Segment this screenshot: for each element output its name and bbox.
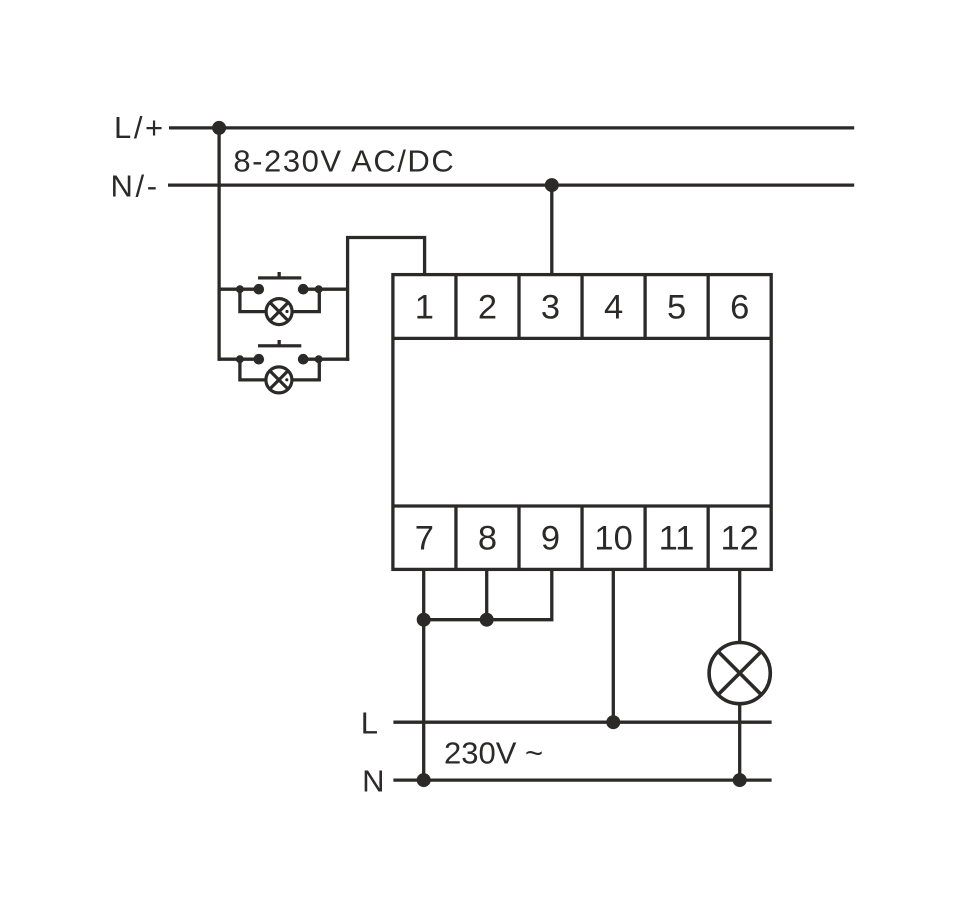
lamp E1 load (709, 643, 770, 704)
svg-text:12: 12 (721, 520, 759, 558)
node junction lamp on N line (733, 773, 747, 787)
lamp HL1 in button S1 (266, 299, 292, 325)
svg-text:10: 10 (594, 520, 632, 558)
button S1 left contact (253, 284, 264, 295)
svg-text:8: 8 (478, 520, 497, 558)
wire N bottom line (393, 778, 771, 781)
node junction on N/- (545, 178, 559, 192)
svg-text:230V ~: 230V ~ (444, 735, 543, 770)
svg-text:N: N (362, 763, 384, 798)
svg-text:5: 5 (667, 289, 686, 327)
wire lamp branch left of S1 (240, 289, 266, 311)
svg-text:2: 2 (478, 289, 497, 327)
svg-text:7: 7 (415, 520, 434, 558)
node S2 lamp branch right (315, 355, 323, 363)
wire terminal 8 down (485, 569, 488, 619)
wire button S1 right lead (303, 288, 347, 291)
svg-text:1: 1 (415, 289, 434, 327)
node S1 lamp branch right (315, 285, 323, 293)
wire terminal 12 down to lamp E1 (738, 569, 741, 644)
lamp HL2 reflection dot (285, 378, 288, 381)
button S2 actuator tick (278, 340, 281, 345)
button S1 right contact (298, 284, 309, 295)
wire button S2 left lead (219, 358, 259, 361)
svg-text:9: 9 (541, 520, 560, 558)
wire lamp branch right of S1 (292, 289, 319, 311)
node junction terminal 8 wire (480, 613, 494, 627)
terminal dividers top row (456, 275, 708, 339)
node junction on L/+ (212, 121, 226, 135)
button S2 left contact (253, 354, 264, 365)
wire lamp E1 to N line (738, 703, 741, 781)
lamp HL2 in button S2 (266, 367, 292, 393)
svg-text:6: 6 (730, 289, 749, 327)
node junction terminal 7 wire (417, 613, 431, 627)
wire button S1 left lead (219, 288, 259, 291)
wire N/- supply line (168, 183, 854, 186)
terminal dividers bottom row (456, 506, 708, 569)
relay U1 body outline (393, 275, 771, 570)
node S2 lamp branch left (236, 355, 244, 363)
wire stub terminal 3 to N/- (550, 185, 553, 276)
button S2 right contact (298, 354, 309, 365)
wire L/+ supply line (169, 126, 854, 129)
button S1 actuator bar (258, 276, 301, 279)
svg-text:L: L (361, 706, 378, 741)
wire from buttons up-over to terminal 1 (348, 238, 425, 361)
wire L bottom line (393, 721, 771, 724)
svg-text:N/-: N/- (111, 169, 160, 204)
wire terminal 10 down to L (612, 569, 615, 722)
wire from L/+ junction down to push buttons (217, 128, 220, 361)
wire button S2 right lead (303, 358, 349, 361)
svg-text:L/+: L/+ (114, 110, 166, 145)
svg-text:3: 3 (541, 289, 560, 327)
wire terminal 9 down and left to terminal 7 wire (424, 569, 552, 619)
wire lamp branch right of S2 (292, 359, 320, 380)
svg-text:4: 4 (604, 289, 623, 327)
node junction terminal 7 on N line (417, 773, 431, 787)
node S1 lamp branch left (236, 285, 244, 293)
button S2 actuator bar (258, 344, 301, 347)
svg-text:8-230V AC/DC: 8-230V AC/DC (233, 143, 455, 178)
node junction on L line (606, 715, 620, 729)
wire terminal 7 down to N (422, 569, 425, 780)
button S1 actuator tick (278, 272, 281, 277)
svg-text:11: 11 (659, 520, 695, 558)
wire lamp branch left of S2 (240, 359, 266, 380)
lamp HL1 reflection dot (285, 310, 288, 313)
